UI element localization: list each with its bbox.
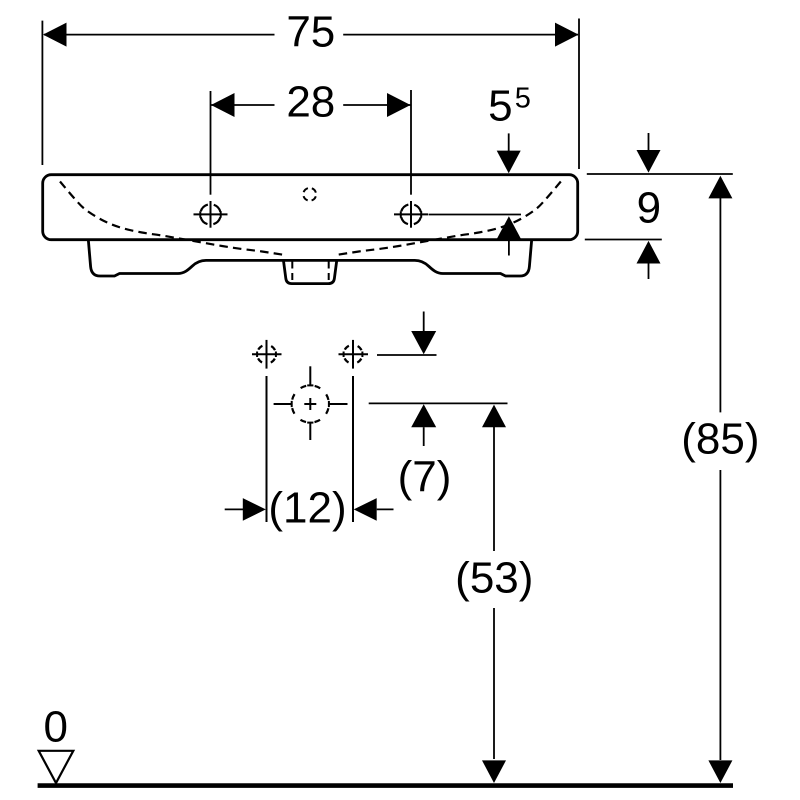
svg-text:5: 5 bbox=[488, 82, 512, 131]
bowl hidden contour left bbox=[60, 182, 287, 256]
datum triangle bbox=[39, 751, 74, 783]
svg-text:9: 9 bbox=[637, 184, 661, 233]
template axis right bbox=[352, 376, 354, 522]
svg-text:(12): (12) bbox=[268, 484, 346, 533]
dimension (53) bbox=[455, 405, 533, 783]
template hole left bbox=[252, 340, 282, 369]
dimension (85) bbox=[681, 176, 759, 783]
dimension 75 bbox=[42, 8, 579, 169]
reference line top of template bbox=[377, 354, 437, 356]
template axis left bbox=[266, 376, 268, 522]
floor line bbox=[38, 783, 733, 788]
dimension 5.5 label bbox=[488, 82, 531, 131]
svg-text:75: 75 bbox=[286, 8, 335, 57]
dimension 28 bbox=[211, 78, 412, 195]
svg-text:28: 28 bbox=[286, 78, 335, 127]
svg-text:(7): (7) bbox=[398, 452, 452, 501]
dimension (12) bbox=[225, 484, 394, 533]
tap hole axis line bbox=[429, 214, 522, 216]
template hole right bbox=[339, 340, 369, 369]
basin underside profile bbox=[88, 240, 531, 277]
template mixer hole bbox=[274, 366, 348, 440]
dimension (7) bbox=[398, 312, 452, 502]
overflow hole bbox=[303, 188, 316, 201]
svg-text:(85): (85) bbox=[681, 414, 759, 463]
dimension 5.5 lower arrow bbox=[497, 216, 521, 255]
tap hole right circle bbox=[394, 201, 428, 228]
bowl hidden contour right bbox=[334, 182, 561, 256]
drain box hidden edge right bbox=[328, 262, 330, 284]
dimension 9 bbox=[585, 133, 733, 279]
svg-text:5: 5 bbox=[515, 83, 531, 115]
tap hole left circle bbox=[194, 201, 228, 228]
dimension 5.5 upper arrow bbox=[497, 133, 521, 173]
svg-text:(53): (53) bbox=[455, 553, 533, 602]
basin body outline bbox=[43, 175, 578, 240]
svg-text:0: 0 bbox=[43, 703, 67, 752]
drain trap box bbox=[284, 261, 337, 284]
drain box hidden edge left bbox=[291, 262, 293, 284]
reference line mixer axis bbox=[369, 402, 508, 404]
